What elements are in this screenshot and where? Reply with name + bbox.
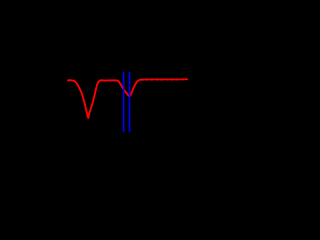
blue marker line right	[129, 72, 131, 133]
blue marker line left	[123, 72, 125, 133]
red dotted flat tail	[140, 78, 187, 81]
red data curve with two absorption dips	[68, 80, 140, 118]
